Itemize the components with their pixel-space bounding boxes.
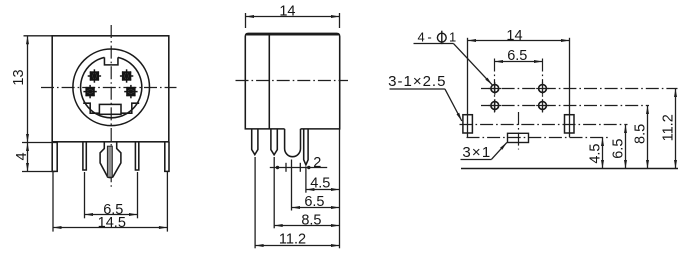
- shield contact U tab: [285, 129, 301, 157]
- latch slot (grey): [107, 146, 112, 177]
- extension line pin3: [305, 167, 307, 193]
- dimension 4.5 vertical line: [602, 138, 604, 169]
- svg-text:3-1×2.5: 3-1×2.5: [388, 73, 446, 90]
- front view body outline: [52, 36, 169, 142]
- centre snap latch outline: [100, 142, 121, 178]
- leader 3-1x2.5: [445, 89, 462, 121]
- dimension 14.5 extensions: [52, 172, 54, 232]
- hole H3: [491, 102, 499, 110]
- shield outer circle: [73, 49, 150, 126]
- dimension 11.2 vertical line: [675, 89, 677, 169]
- svg-text:2: 2: [313, 155, 321, 171]
- svg-text:6.5: 6.5: [304, 194, 324, 210]
- dimension 8.5 vertical line: [647, 106, 649, 169]
- svg-text:6.5: 6.5: [507, 48, 527, 64]
- svg-text:13: 13: [11, 69, 27, 85]
- mounting slot right 1x2.5: [565, 115, 575, 133]
- mounting slot left 1x2.5: [463, 115, 473, 133]
- dimension 14 line: [246, 16, 340, 18]
- hole H1: [491, 85, 499, 93]
- hole row centerline bottom: [481, 105, 649, 107]
- mounting slot extension left: [467, 38, 469, 137]
- svg-text:1: 1: [449, 29, 456, 44]
- dimension 2 line with dots: [270, 167, 327, 169]
- hole row centerline top: [481, 88, 678, 90]
- board edge baseline: [461, 168, 678, 170]
- svg-text:4: 4: [14, 152, 30, 160]
- pin row 1: [252, 129, 258, 155]
- leader 3x1: [492, 142, 507, 159]
- vertical centerline centre slot: [518, 112, 520, 150]
- svg-text:3×1: 3×1: [462, 144, 491, 161]
- dimension 14 extensions: [245, 13, 247, 28]
- svg-text:4.5: 4.5: [587, 144, 603, 164]
- right mounting leg: [165, 142, 169, 172]
- dimension 13/4 shared extension: [22, 142, 57, 144]
- left mounting leg: [52, 142, 57, 172]
- left insert step: [83, 103, 99, 113]
- dimension 6.5 vertical line: [625, 125, 627, 169]
- shield inner circle with top key gap: [81, 57, 142, 117]
- svg-text:14: 14: [279, 3, 295, 19]
- bottom key rectangle: [99, 104, 121, 114]
- svg-text:4.5: 4.5: [310, 176, 330, 192]
- dimension 13 line: [27, 36, 29, 143]
- svg-text:11.2: 11.2: [279, 232, 306, 248]
- leader 4-phi1: [454, 44, 493, 85]
- hole H2: [539, 85, 547, 93]
- dimension 4.5 line: [306, 189, 340, 191]
- extension line U tab: [291, 160, 293, 211]
- top key notch: [104, 57, 118, 65]
- right insert step: [121, 103, 139, 113]
- svg-text:14.5: 14.5: [98, 215, 126, 231]
- svg-text:4-: 4-: [418, 29, 435, 44]
- hole H4: [539, 102, 547, 110]
- thick top face edge: [246, 33, 339, 35]
- svg-text:8.5: 8.5: [632, 124, 648, 144]
- dimension 14.5 line: [53, 227, 167, 229]
- vertical centerline: [110, 25, 112, 187]
- horizontal centerline: [41, 87, 177, 89]
- dimension 11.2 line: [255, 245, 339, 247]
- svg-text:8.5: 8.5: [301, 212, 321, 228]
- body step line: [268, 33, 270, 128]
- slot 3x1: [508, 133, 529, 142]
- hole column centerline right: [542, 59, 544, 113]
- svg-text:11.2: 11.2: [660, 114, 676, 141]
- dimension 6.5 line: [292, 207, 340, 209]
- dimension 4 line: [27, 143, 29, 172]
- pin P4 (top-right): [120, 69, 133, 82]
- side view body outline: [245, 33, 339, 128]
- extension line pin1: [254, 157, 256, 248]
- pin row 3: [304, 129, 308, 165]
- dimension 6.5 line: [495, 61, 543, 63]
- extension line body right edge: [339, 129, 341, 248]
- pin P2 (bottom-right): [124, 85, 137, 98]
- dimension 6.5 extensions: [84, 172, 86, 218]
- extension line pin2: [273, 157, 275, 228]
- dimension 13 extension top: [24, 35, 52, 37]
- dimension 6.5 line: [85, 214, 138, 216]
- dimension 14 line: [468, 40, 570, 42]
- svg-text:6.5: 6.5: [610, 139, 626, 159]
- slot 3x1 centerline: [467, 137, 611, 139]
- left solder pin: [83, 142, 86, 170]
- hole column centerline left: [494, 59, 496, 113]
- pin P3 (top-left): [88, 69, 101, 82]
- right solder pin: [135, 142, 138, 170]
- slot row centerline: [460, 124, 628, 126]
- side view centerline: [236, 80, 349, 82]
- dimension 8.5 line: [274, 225, 339, 227]
- pin row 2: [271, 129, 277, 155]
- pin P1 (bottom-left): [83, 85, 96, 98]
- svg-text:14: 14: [506, 28, 522, 44]
- mounting slot extension right: [569, 38, 571, 137]
- dimension 4 extension bottom: [22, 171, 55, 173]
